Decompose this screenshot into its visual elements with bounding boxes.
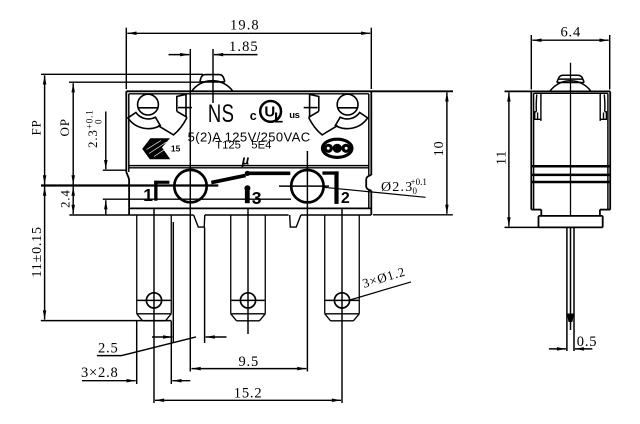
svg-text:0: 0: [94, 119, 104, 127]
svg-text:6.4: 6.4: [561, 25, 582, 41]
dimension 10: [446, 92, 448, 214]
dimension 19.8: [126, 28, 371, 89]
leader Ø2.3: [324, 187, 426, 197]
side view left latch hook: [535, 93, 541, 121]
svg-text:NS: NS: [208, 99, 234, 128]
svg-text:19.8: 19.8: [230, 17, 260, 33]
svg-text:FP: FP: [29, 119, 44, 135]
extension line x=171.7 (2.8): [170, 321, 172, 384]
svg-text:3: 3: [252, 188, 262, 208]
side view terminal wires: [567, 227, 574, 351]
top-left corner: mounting circle and wing: [128, 94, 192, 135]
terminal 2 bracket: [322, 171, 338, 204]
dimension 1.85: [169, 54, 258, 56]
dimension 2.3 +0.1/0: [105, 112, 107, 216]
body inner offset lines: [129, 94, 369, 209]
UL recognized component mark: [250, 101, 300, 127]
corner mounting circle: [138, 94, 159, 115]
svg-text:5E4: 5E4: [251, 139, 271, 151]
side view right latch hook: [600, 93, 606, 121]
side view plunger: [550, 81, 591, 91]
svg-text:15.2: 15.2: [234, 386, 263, 402]
svg-text:9.5: 9.5: [239, 354, 260, 370]
svg-text:us: us: [289, 110, 299, 121]
K15 certification logo: [142, 138, 180, 159]
dimension 6.4: [531, 35, 609, 90]
terminal leg at x=248.0: [231, 215, 266, 321]
svg-text:15: 15: [171, 144, 181, 154]
plunger dome: [192, 81, 233, 92]
leg hole Ø1.2: [240, 293, 255, 308]
pivot contact dot: [245, 171, 250, 176]
svg-text:2.5: 2.5: [98, 341, 119, 357]
svg-text:0.5: 0.5: [577, 334, 598, 350]
top-right corner: mounting circle and wing (mirrored): [304, 94, 368, 135]
side view body: [505, 91, 611, 227]
corner wing crescent: [335, 113, 367, 129]
FP reference line: [41, 73, 203, 75]
svg-text:2.4: 2.4: [58, 189, 73, 208]
terminal leg at x=154.0: [137, 215, 172, 321]
cavity wall pentagon: [177, 94, 186, 117]
terminal leg at x=342.0: [325, 215, 360, 321]
wire tip taper: [567, 314, 574, 323]
leg hole chord line: [231, 299, 264, 301]
dimension 11 (side): [505, 226, 539, 228]
extension line x=204.6 (2.5, pip edge): [204, 227, 206, 343]
cavity wall pentagon: [310, 94, 319, 117]
dimension 2.3 +0.1/0 reference lines: [103, 169, 127, 171]
extension line x=173.3 (2.5): [172, 222, 174, 343]
plunger cap: [200, 75, 225, 82]
svg-text:L: L: [274, 110, 283, 127]
extension line x=307.4 (9.5): [306, 151, 308, 372]
switch body outline (front view): [126, 91, 453, 215]
datum line through left circle: [41, 184, 218, 186]
svg-text:2: 2: [341, 190, 350, 207]
svg-text:c: c: [250, 109, 257, 123]
terminal 3 contact dot: [244, 185, 250, 191]
terminal 3 stem: [245, 190, 250, 203]
svg-text:10: 10: [432, 141, 447, 157]
extension line x=190.3 (1.85 / 9.5): [189, 49, 191, 372]
dimension FP: [44, 75, 46, 184]
terminal 1 bracket: [154, 181, 169, 201]
svg-text:T125: T125: [215, 139, 241, 151]
svg-text:1: 1: [143, 185, 153, 205]
svg-text:OP: OP: [57, 118, 72, 136]
svg-text:µ: µ: [241, 153, 250, 168]
left mechanism circle: [174, 170, 206, 202]
chord line through right circle: [279, 185, 329, 187]
svg-text:3×2.8: 3×2.8: [81, 365, 119, 381]
dimension 2.4: [69, 214, 129, 216]
dimension 11±0.15: [41, 320, 172, 322]
tick line: [178, 107, 192, 109]
right mechanism circle: [291, 170, 323, 202]
oval certification logo: [322, 139, 352, 157]
internal separator double line: [129, 166, 369, 168]
dimension 15.2: [155, 399, 341, 401]
dimension 9.5: [192, 368, 307, 370]
leg hole Ø1.2: [146, 293, 161, 308]
svg-text:1.85: 1.85: [229, 39, 259, 55]
svg-text:11±0.15: 11±0.15: [30, 226, 45, 277]
wing flap: [309, 117, 338, 134]
leg centerlines: [154, 209, 342, 404]
fixed contact line to terminal 2 side: [247, 172, 290, 176]
side view belt lines: [531, 166, 610, 182]
dimension 10 extension lines: [373, 214, 453, 216]
svg-text:11: 11: [494, 150, 509, 165]
tick line: [304, 107, 318, 109]
svg-text:Ø2.3: Ø2.3: [381, 180, 413, 195]
extension line x=213 (1.85, plunger center): [212, 49, 214, 103]
leader 3×Ø1.2: [350, 282, 411, 300]
side view centerline: [570, 63, 572, 216]
svg-text:2.3: 2.3: [85, 129, 100, 148]
dimension OP: [72, 83, 74, 184]
extension line x=137.2 (2.8): [136, 321, 138, 384]
corner wing crescent: [128, 113, 160, 129]
switch lever (moving contact): [211, 175, 245, 182]
wing flap: [158, 117, 187, 134]
dimension 0.5: [549, 348, 592, 350]
leg hole chord line: [137, 299, 170, 301]
OP reference line: [69, 81, 201, 83]
svg-text:0: 0: [413, 186, 418, 196]
svg-text:5(2)A 125V/250VAC: 5(2)A 125V/250VAC: [188, 129, 311, 144]
corner mounting circle: [337, 94, 358, 115]
body bottom edge with mounting pips: [129, 215, 371, 227]
leg hole chord line: [325, 299, 358, 301]
leg hole Ø1.2: [334, 293, 349, 308]
